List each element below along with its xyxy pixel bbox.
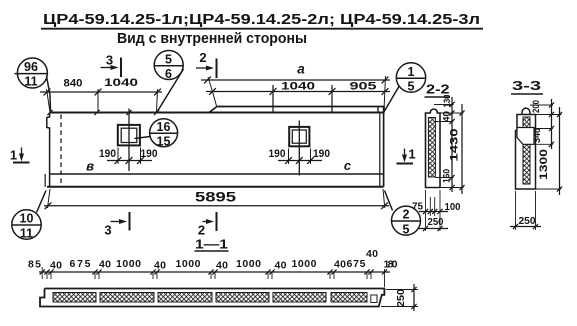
svg-text:2: 2 [403, 208, 410, 222]
svg-text:11: 11 [20, 227, 33, 241]
svg-text:10: 10 [20, 212, 34, 226]
svg-text:180: 180 [384, 259, 398, 271]
svg-text:1: 1 [408, 65, 415, 79]
svg-text:40: 40 [366, 248, 378, 260]
svg-text:96: 96 [24, 60, 38, 74]
svg-text:130: 130 [442, 95, 453, 108]
svg-text:2: 2 [199, 50, 206, 65]
svg-text:1000: 1000 [292, 258, 317, 270]
svg-text:16: 16 [157, 120, 171, 134]
svg-text:85: 85 [28, 259, 41, 271]
svg-text:190: 190 [99, 148, 116, 160]
svg-text:2: 2 [198, 223, 205, 238]
svg-text:1040: 1040 [281, 81, 315, 93]
svg-text:675: 675 [70, 258, 91, 270]
svg-text:190: 190 [269, 148, 286, 160]
svg-text:250: 250 [428, 216, 444, 228]
svg-text:1000: 1000 [176, 258, 201, 270]
svg-text:1040: 1040 [104, 77, 138, 89]
svg-text:1—1: 1—1 [195, 237, 228, 252]
svg-text:3-3: 3-3 [512, 78, 541, 93]
svg-text:Вид с внутренней стороны: Вид с внутренней стороны [117, 31, 307, 47]
svg-text:200: 200 [531, 100, 542, 113]
svg-text:1000: 1000 [116, 258, 141, 270]
svg-text:5: 5 [403, 223, 410, 237]
svg-text:1: 1 [10, 148, 17, 163]
svg-text:11: 11 [24, 75, 37, 89]
svg-text:6: 6 [165, 67, 172, 81]
svg-text:1430: 1430 [449, 129, 461, 162]
svg-text:190: 190 [141, 148, 158, 160]
svg-text:190: 190 [313, 148, 330, 160]
svg-text:3: 3 [106, 53, 113, 68]
svg-text:250: 250 [519, 215, 536, 227]
svg-text:675: 675 [347, 258, 366, 270]
svg-text:250: 250 [395, 289, 407, 307]
svg-text:2-2: 2-2 [426, 82, 450, 97]
svg-text:40: 40 [50, 260, 62, 272]
svg-text:340: 340 [532, 128, 543, 143]
svg-text:5: 5 [165, 53, 172, 67]
svg-text:с: с [344, 158, 352, 173]
svg-text:840: 840 [64, 78, 83, 90]
svg-text:40: 40 [442, 111, 453, 122]
svg-text:в: в [86, 159, 94, 174]
svg-text:905: 905 [350, 81, 377, 93]
svg-text:ЦР4-59.14.25-1л;ЦР4-59.14.25-2: ЦР4-59.14.25-1л;ЦР4-59.14.25-2л; ЦР4-59.… [43, 11, 480, 28]
svg-text:40: 40 [334, 259, 346, 271]
svg-text:1000: 1000 [236, 258, 261, 270]
svg-text:40: 40 [99, 259, 111, 271]
svg-text:1300: 1300 [538, 149, 550, 180]
svg-text:1: 1 [408, 147, 415, 162]
svg-text:40: 40 [275, 260, 287, 272]
svg-text:15: 15 [157, 135, 171, 149]
svg-text:a: a [297, 62, 305, 77]
svg-text:3: 3 [104, 223, 111, 238]
svg-text:100: 100 [445, 201, 461, 213]
svg-text:160: 160 [442, 169, 453, 183]
svg-text:75: 75 [412, 201, 423, 213]
svg-text:5895: 5895 [195, 190, 237, 205]
svg-text:5: 5 [408, 80, 415, 94]
